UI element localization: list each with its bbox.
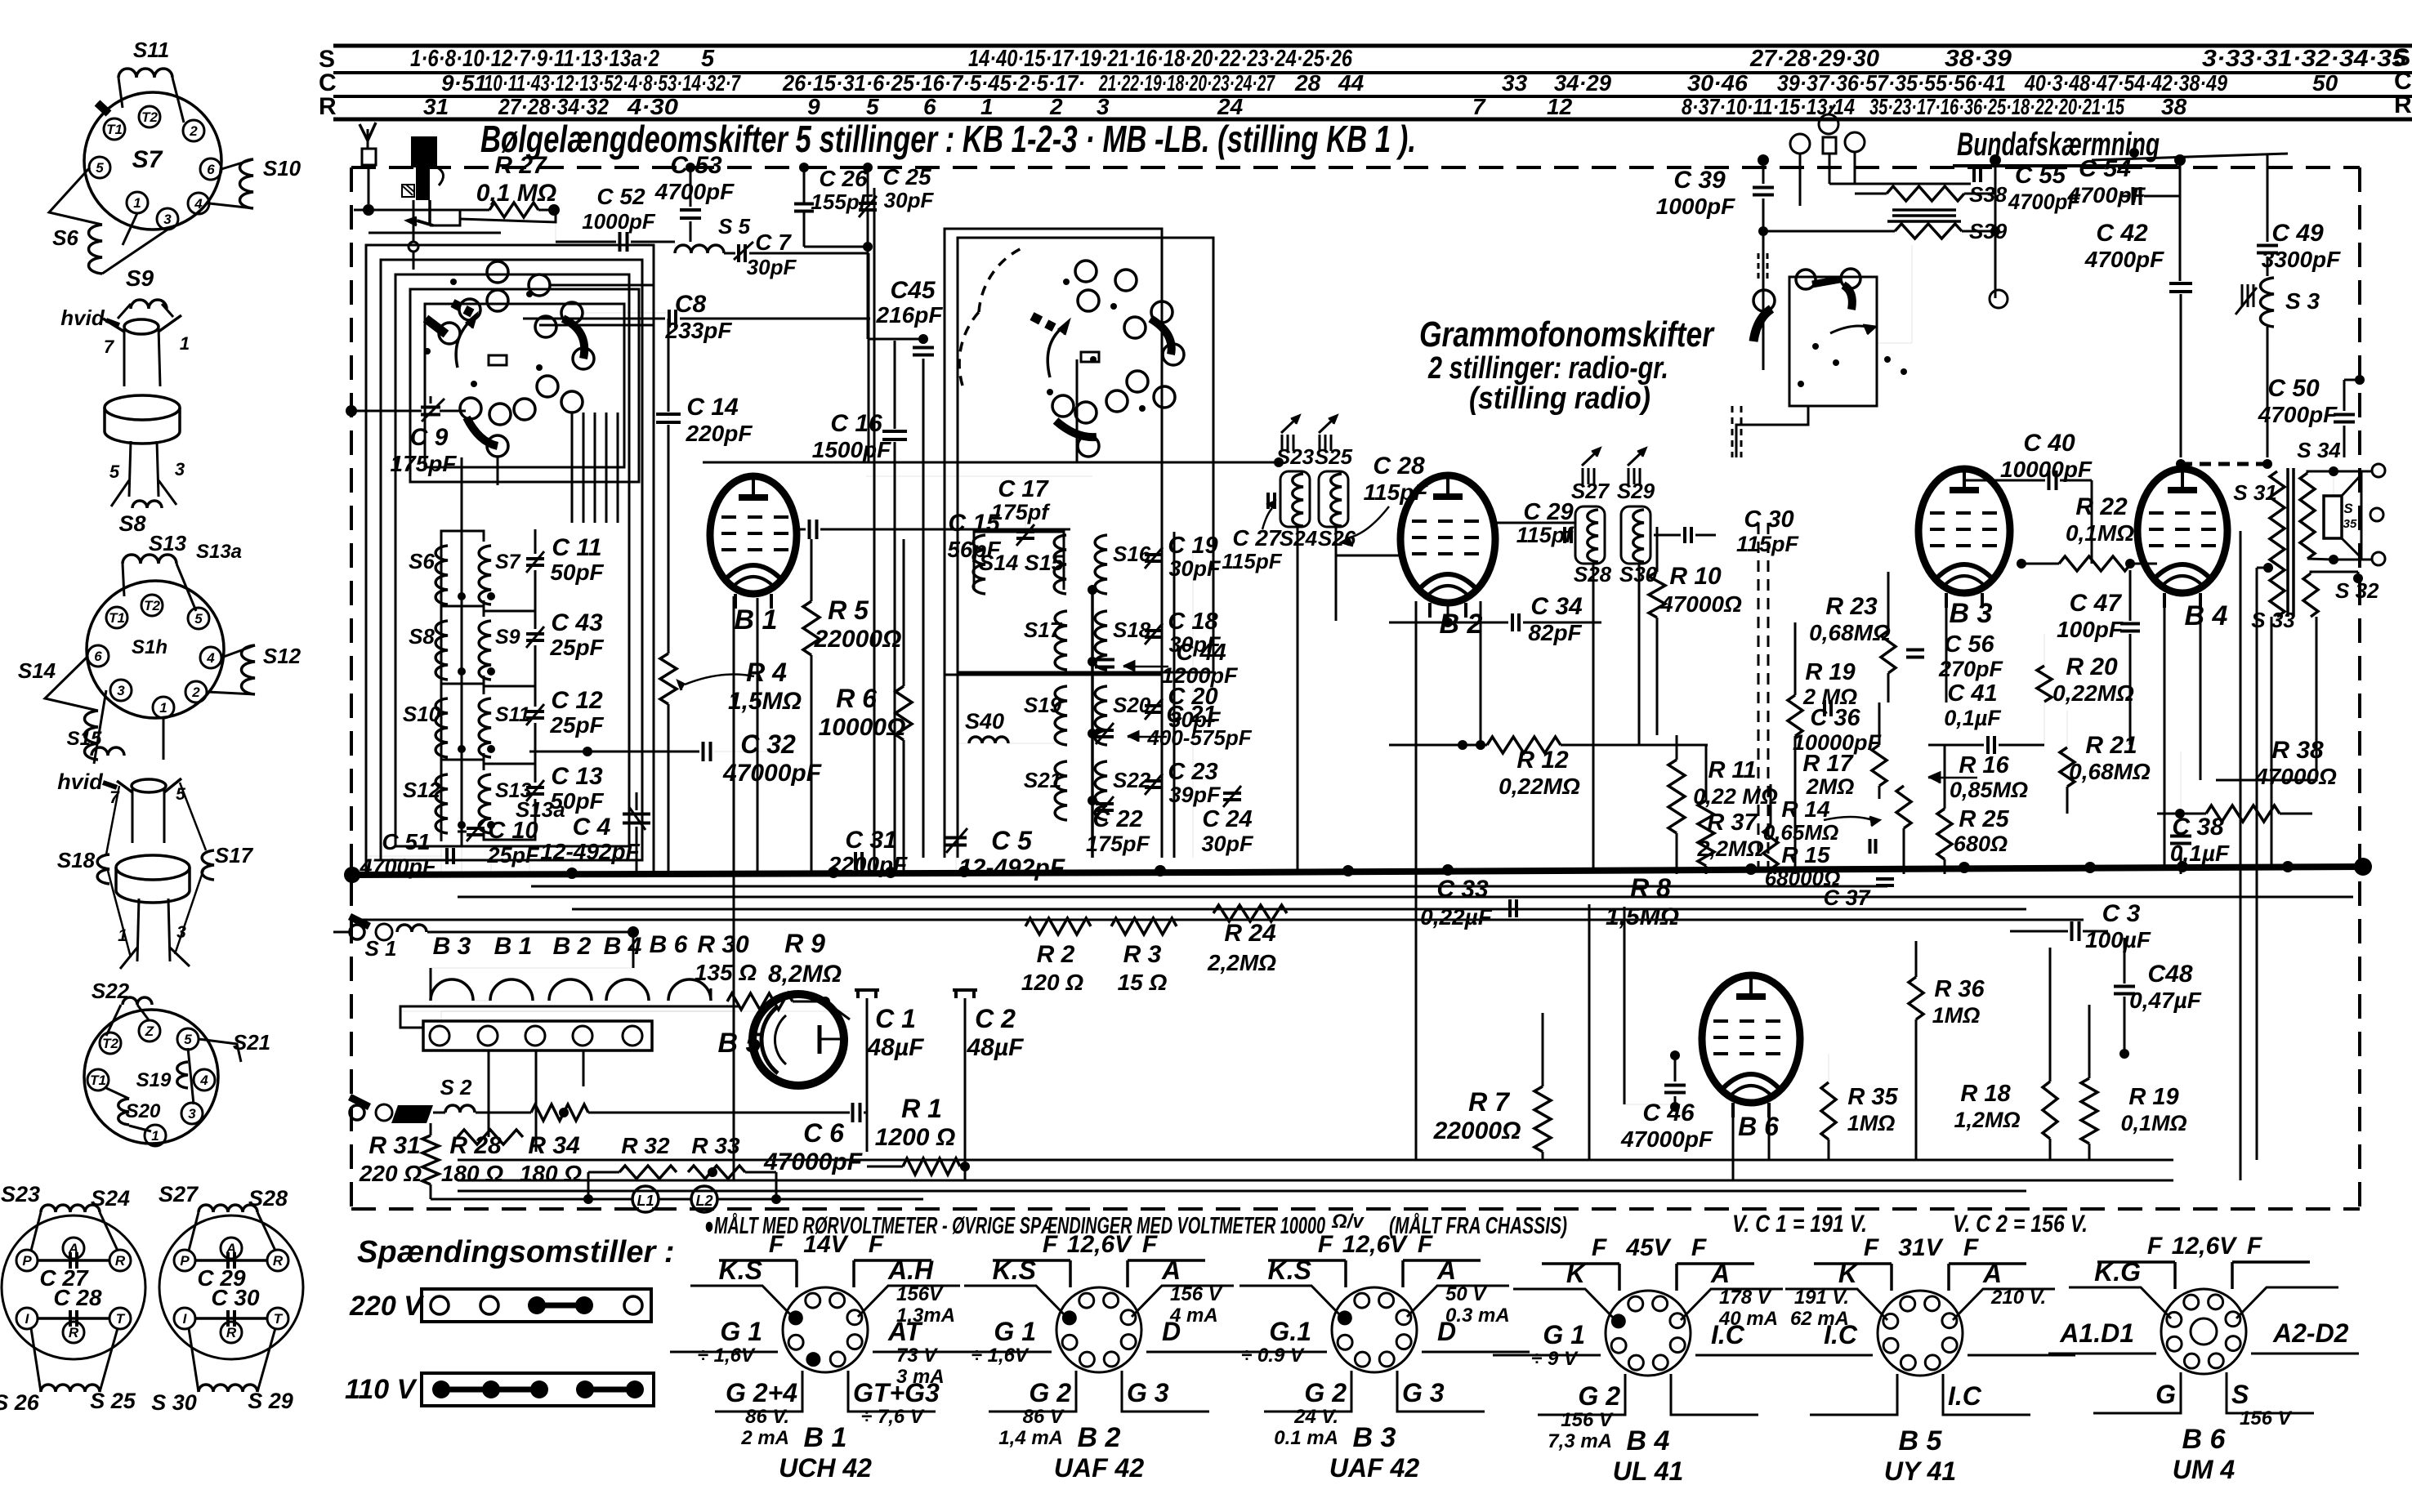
svg-text:1: 1 [180,333,190,354]
svg-text:G 1: G 1 [720,1317,762,1346]
svg-text:Bølgelængdeomskifter 5 stilli: Bølgelængdeomskifter 5 stillinger : KB 1… [480,118,1416,160]
svg-text:73 V: 73 V [896,1345,938,1367]
svg-text:3: 3 [188,1106,196,1122]
svg-text:B 5: B 5 [718,1028,762,1059]
svg-text:12-492pF: 12-492pF [540,839,640,864]
svg-text:Grammofonomskifter: Grammofonomskifter [1419,314,1715,355]
svg-text:1,5MΩ: 1,5MΩ [728,688,802,715]
svg-text:C 50: C 50 [2267,375,2320,402]
svg-text:C 17: C 17 [998,476,1049,502]
svg-text:28: 28 [1294,70,1321,96]
svg-text:C 54: C 54 [2079,156,2131,182]
svg-text:R 19: R 19 [2128,1084,2178,1110]
svg-text:A: A [1161,1256,1181,1285]
svg-text:R: R [226,1325,237,1340]
svg-text:S21: S21 [1024,768,1061,792]
svg-text:AT: AT [887,1317,923,1346]
svg-text:4700pF: 4700pF [2258,402,2338,427]
svg-text:21·22·19·18·20·23·24·27: 21·22·19·18·20·23·24·27 [1098,70,1275,96]
svg-text:34·29: 34·29 [1554,70,1611,96]
svg-text:38: 38 [2161,94,2187,119]
svg-text:R: R [2394,91,2412,118]
svg-text:K.G: K.G [2094,1257,2141,1287]
svg-text:GT+G3: GT+G3 [853,1378,940,1407]
svg-text:2,2MΩ: 2,2MΩ [1696,836,1763,861]
svg-text:C48: C48 [2147,961,2192,988]
svg-text:S12: S12 [403,778,441,802]
svg-text:C 43: C 43 [551,609,603,636]
svg-text:5: 5 [701,46,715,72]
svg-text:1MΩ: 1MΩ [1932,1003,1981,1028]
svg-text:C 14: C 14 [686,394,739,421]
svg-text:C 49: C 49 [2271,220,2324,247]
svg-text:A.H: A.H [887,1256,934,1285]
svg-text:Spændingsomstiller :: Spændingsomstiller : [357,1235,674,1269]
svg-text:38·39: 38·39 [1945,46,2012,72]
svg-text:115pF: 115pF [1222,549,1282,573]
svg-text:1000pF: 1000pF [582,209,656,234]
svg-text:10000pF: 10000pF [2000,457,2093,482]
svg-text:A1.D1: A1.D1 [2059,1318,2134,1348]
svg-text:0,47µF: 0,47µF [2129,988,2202,1013]
svg-text:7,3 mA: 7,3 mA [1548,1430,1612,1452]
svg-text:0,1MΩ: 0,1MΩ [2066,520,2134,546]
svg-text:45V: 45V [1625,1234,1672,1261]
svg-text:S8: S8 [409,624,435,649]
svg-text:B 6: B 6 [1738,1112,1779,1141]
svg-text:T2: T2 [144,598,160,613]
svg-text:T1: T1 [109,610,125,626]
svg-text:86 V: 86 V [1023,1406,1065,1428]
svg-text:R 3: R 3 [1123,941,1162,968]
svg-text:B 6: B 6 [650,931,688,958]
svg-text:39pF: 39pF [1168,783,1222,807]
svg-text:G 1: G 1 [1543,1320,1585,1349]
svg-text:9: 9 [807,94,820,119]
svg-text:S27: S27 [159,1182,199,1206]
svg-text:50: 50 [2312,70,2338,96]
svg-text:0,22 MΩ: 0,22 MΩ [1693,784,1778,809]
svg-text:44: 44 [1338,70,1365,96]
svg-text:S17: S17 [1024,618,1063,642]
svg-text:R 21: R 21 [2085,732,2137,759]
svg-text:R 6: R 6 [836,684,877,713]
svg-text:G 2: G 2 [1578,1381,1620,1411]
svg-text:S 34: S 34 [2297,438,2341,462]
svg-text:C 27: C 27 [1232,525,1282,551]
svg-text:L1: L1 [636,1193,654,1209]
svg-text:S14 S15: S14 S15 [979,551,1065,575]
svg-text:2MΩ: 2MΩ [1806,774,1855,799]
svg-text:1: 1 [159,700,167,716]
svg-text:R 5: R 5 [828,595,869,625]
svg-text:6: 6 [207,162,215,177]
svg-text:S 2: S 2 [440,1075,472,1099]
svg-text:30pF: 30pF [884,188,935,212]
svg-text:R: R [273,1253,284,1269]
svg-text:V. C 1 = 191 V.: V. C 1 = 191 V. [1732,1211,1867,1238]
svg-text:2: 2 [191,685,200,700]
svg-text:C 5: C 5 [991,826,1033,855]
svg-text:C 31: C 31 [845,827,896,854]
svg-text:R 35: R 35 [1847,1084,1898,1110]
svg-text:10·11·43·12·13·52·4·8·53·14·32: 10·11·43·12·13·52·4·8·53·14·32·7 [484,70,741,96]
svg-text:I.C: I.C [1824,1320,1858,1349]
svg-text:UL 41: UL 41 [1613,1456,1684,1486]
svg-text:B 3: B 3 [1950,598,1993,629]
svg-text:C 11: C 11 [552,534,601,561]
svg-text:D: D [1162,1317,1181,1346]
svg-text:3: 3 [117,683,125,698]
svg-text:R 19: R 19 [1805,659,1855,685]
svg-text:216pF: 216pF [876,302,944,328]
svg-text:1000pF: 1000pF [1656,194,1735,219]
svg-text:G 2+4: G 2+4 [726,1378,797,1407]
svg-text:C 52: C 52 [596,184,645,209]
svg-text:V. C 2 = 156 V.: V. C 2 = 156 V. [1953,1211,2088,1238]
svg-text:÷ 0.9 V: ÷ 0.9 V [1241,1345,1305,1367]
svg-text:82pF: 82pF [1528,620,1582,645]
svg-text:B 1: B 1 [804,1422,847,1453]
svg-text:1MΩ: 1MΩ [1847,1111,1896,1135]
svg-text:R 7: R 7 [1468,1087,1511,1117]
svg-text:4700pF: 4700pF [2084,247,2164,272]
svg-text:40·3·48·47·54·42·38·49: 40·3·48·47·54·42·38·49 [2024,70,2227,96]
svg-text:C 33: C 33 [1436,876,1489,903]
svg-text:C 13: C 13 [551,763,603,790]
svg-text:2 stillinger: radio-gr.: 2 stillinger: radio-gr. [1427,351,1668,386]
svg-text:I.C: I.C [1711,1320,1745,1349]
svg-text:0,85MΩ: 0,85MΩ [1950,778,2028,802]
svg-text:2,2MΩ: 2,2MΩ [1207,950,1276,975]
svg-text:S18: S18 [57,848,96,872]
svg-text:R 14: R 14 [1781,796,1830,822]
svg-text:C 24: C 24 [1202,806,1252,832]
svg-text:5: 5 [96,160,104,176]
svg-text:S19: S19 [1024,693,1062,717]
svg-text:50pF: 50pF [550,560,604,585]
svg-text:1200 Ω: 1200 Ω [875,1124,956,1151]
svg-text:B 4: B 4 [1627,1425,1670,1456]
svg-text:R 9: R 9 [784,929,825,958]
svg-text:C 36: C 36 [1810,705,1860,731]
svg-text:hvid: hvid [57,769,103,794]
svg-text:1·6·8·10·12·7·9·11·13·13a·2: 1·6·8·10·12·7·9·11·13·13a·2 [410,46,659,72]
svg-text:C 28: C 28 [1373,453,1425,479]
svg-text:C 2: C 2 [975,1004,1016,1033]
svg-text:UAF 42: UAF 42 [1329,1453,1419,1483]
svg-text:220 Ω: 220 Ω [359,1161,422,1186]
svg-text:175pF: 175pF [1086,832,1151,856]
svg-text:1: 1 [151,1128,159,1144]
svg-text:1,4 mA: 1,4 mA [998,1427,1063,1449]
svg-text:S 25: S 25 [90,1389,136,1413]
svg-text:220pF: 220pF [686,421,753,446]
svg-text:25pF: 25pF [549,712,604,738]
svg-text:3: 3 [1097,94,1110,119]
svg-text:C 34: C 34 [1530,593,1583,620]
svg-text:8,2MΩ: 8,2MΩ [768,961,842,988]
svg-text:47000pF: 47000pF [1620,1126,1713,1152]
svg-text:R: R [69,1325,79,1340]
svg-text:14·40·15·17·19·21·16·18·20·22·: 14·40·15·17·19·21·16·18·20·22·23·24·25·2… [968,46,1353,72]
svg-text:S29: S29 [1617,479,1655,503]
svg-text:S10: S10 [403,702,441,726]
svg-text:31: 31 [423,94,449,119]
svg-text:C 28: C 28 [53,1285,102,1310]
svg-text:A2-D2: A2-D2 [2272,1318,2349,1348]
svg-text:C 46: C 46 [1642,1099,1695,1126]
svg-text:1: 1 [133,195,141,211]
svg-text:C 25: C 25 [882,164,931,190]
svg-text:3300pF: 3300pF [2262,247,2341,272]
svg-text:2: 2 [189,123,198,139]
svg-text:C 26: C 26 [819,166,868,191]
svg-text:C 44: C 44 [1176,640,1226,666]
svg-text:1,2MΩ: 1,2MΩ [1954,1108,2020,1132]
svg-text:S 26: S 26 [0,1390,40,1415]
svg-text:C 51: C 51 [382,829,430,854]
svg-text:35: 35 [2343,517,2357,531]
svg-text:K: K [1838,1259,1860,1288]
svg-text:2: 2 [1049,94,1063,119]
svg-text:T2: T2 [102,1036,118,1051]
svg-text:G.1: G.1 [1269,1317,1311,1346]
svg-text:S6: S6 [409,549,435,573]
svg-text:S7: S7 [132,146,163,173]
svg-text:C 12: C 12 [551,687,603,714]
svg-text:G 3: G 3 [1402,1378,1445,1407]
svg-text:S 5: S 5 [718,214,751,239]
svg-text:R 8: R 8 [1630,873,1671,903]
svg-text:S: S [2343,501,2353,516]
svg-text:K.S: K.S [719,1256,763,1285]
svg-text:0,22MΩ: 0,22MΩ [1499,774,1580,799]
svg-text:100pF: 100pF [2057,617,2124,642]
svg-text:12-492pF: 12-492pF [958,854,1065,881]
svg-text:27·28·29·30: 27·28·29·30 [1749,46,1879,72]
svg-text:30pF: 30pF [1168,556,1222,581]
svg-text:S8: S8 [118,511,145,536]
svg-text:UAF 42: UAF 42 [1054,1453,1144,1483]
svg-text:P: P [180,1253,190,1269]
svg-text:C 29: C 29 [1523,499,1573,525]
svg-text:R 10: R 10 [1669,563,1722,590]
svg-text:25pF: 25pF [486,843,540,868]
svg-text:UM 4: UM 4 [2173,1455,2236,1484]
svg-text:S11: S11 [495,703,530,726]
svg-text:0,1MΩ: 0,1MΩ [2120,1111,2186,1135]
svg-text:R 25: R 25 [1959,806,2009,832]
svg-text:I.C: I.C [1948,1381,1982,1411]
svg-text:0,68MΩ: 0,68MΩ [1809,620,1891,645]
svg-text:15 Ω: 15 Ω [1118,970,1168,995]
svg-text:47000Ω: 47000Ω [1659,591,1742,617]
svg-text:30pF: 30pF [747,255,797,279]
svg-text:G 2: G 2 [1304,1378,1347,1407]
svg-text:5: 5 [866,94,879,119]
svg-text:R 32: R 32 [621,1133,670,1158]
svg-text:R 37: R 37 [1707,810,1758,836]
svg-text:R 23: R 23 [1825,593,1878,620]
svg-text:S19: S19 [136,1069,172,1091]
svg-text:A: A [1710,1259,1730,1288]
svg-text:S12: S12 [263,644,301,668]
svg-text:220 V: 220 V [349,1291,425,1322]
svg-text:31V: 31V [1898,1234,1944,1261]
svg-text:R 22: R 22 [2075,493,2128,520]
svg-text:0,1 MΩ: 0,1 MΩ [476,180,556,207]
svg-text:L2: L2 [695,1193,712,1209]
svg-text:5: 5 [109,462,120,482]
svg-text:÷ 1,6V: ÷ 1,6V [971,1345,1030,1367]
svg-text:S9: S9 [495,626,520,649]
svg-text:2 mA: 2 mA [740,1427,789,1449]
svg-text:C 16: C 16 [830,410,882,437]
svg-text:F: F [1592,1234,1607,1261]
svg-text:S 3: S 3 [2285,288,2320,314]
svg-text:12: 12 [1547,94,1573,119]
svg-text:G 3: G 3 [1127,1378,1169,1407]
svg-text:F: F [1963,1234,1979,1261]
svg-text:175pF: 175pF [391,451,458,476]
svg-text:7: 7 [104,337,115,357]
svg-text:C 18: C 18 [1168,609,1218,635]
svg-text:B 6: B 6 [2182,1424,2227,1455]
svg-text:C 53: C 53 [670,152,722,179]
svg-text:86 V.: 86 V. [745,1406,789,1428]
svg-text:120 Ω: 120 Ω [1021,970,1083,995]
svg-text:S13a: S13a [196,541,242,563]
svg-text:1500pF: 1500pF [812,437,891,462]
svg-text:T1: T1 [106,122,123,137]
svg-text:C 56: C 56 [1944,631,1994,658]
svg-text:F: F [2147,1233,2163,1260]
svg-text:F: F [1864,1234,1879,1261]
svg-text:4: 4 [194,196,203,212]
svg-text:R 4: R 4 [746,658,787,687]
svg-text:D: D [1437,1317,1456,1346]
svg-text:T: T [116,1311,126,1327]
svg-text:R 2: R 2 [1037,941,1075,968]
svg-text:T1: T1 [90,1073,106,1088]
svg-text:÷ 1,6V: ÷ 1,6V [698,1345,756,1367]
svg-text:3·33·31·32·34·35: 3·33·31·32·34·35 [2202,46,2407,72]
svg-text:÷ 9 V: ÷ 9 V [1531,1348,1579,1370]
svg-text:4700pF: 4700pF [359,854,437,879]
svg-text:C 7: C 7 [755,230,792,255]
svg-text:110 V: 110 V [345,1374,418,1405]
svg-text:24 V.: 24 V. [1293,1406,1338,1428]
svg-text:R 31: R 31 [368,1132,420,1159]
svg-text:47000pF: 47000pF [763,1148,863,1175]
svg-text:G: G [2155,1380,2176,1409]
svg-text:(stilling radio): (stilling radio) [1469,381,1650,416]
svg-text:30·46: 30·46 [1687,70,1748,96]
svg-text:C8: C8 [675,291,707,318]
svg-text:F: F [1691,1234,1707,1261]
svg-text:R: R [115,1253,126,1269]
svg-text:25pF: 25pF [549,635,604,660]
svg-text:B 4: B 4 [2185,600,2228,631]
svg-text:3: 3 [163,212,172,227]
svg-text:R 27: R 27 [494,152,547,179]
svg-text:B 2: B 2 [553,933,592,960]
svg-text:5: 5 [194,611,203,627]
svg-text:S13: S13 [149,531,187,555]
svg-text:K: K [1566,1259,1588,1288]
svg-text:47000pF: 47000pF [722,760,822,787]
svg-text:F: F [2247,1233,2262,1260]
svg-text:T: T [274,1311,284,1327]
svg-text:4: 4 [199,1073,208,1088]
svg-text:R 18: R 18 [1960,1081,2011,1107]
svg-text:UY 41: UY 41 [1884,1456,1956,1486]
svg-text:4700pF: 4700pF [654,179,735,204]
svg-text:35·23·17·16·36·25·18·22·20·21·: 35·23·17·16·36·25·18·22·20·21·15 [1869,94,2124,119]
svg-text:C45: C45 [890,277,936,304]
svg-text:S6: S6 [52,225,78,250]
svg-text:S27: S27 [1571,479,1610,503]
svg-text:48µF: 48µF [867,1034,925,1061]
svg-text:156 V: 156 V [1561,1409,1614,1431]
svg-text:9·51: 9·51 [441,70,487,96]
svg-text:K.S: K.S [1268,1256,1312,1285]
svg-text:27·28·34·32: 27·28·34·32 [498,94,609,119]
svg-text:4·30: 4·30 [627,94,679,119]
svg-text:22000Ω: 22000Ω [1433,1117,1521,1144]
svg-text:C 9: C 9 [410,424,449,451]
svg-text:Ω/v: Ω/v [1331,1211,1365,1233]
svg-text:C 6: C 6 [803,1118,844,1148]
svg-text:S28: S28 [248,1186,288,1211]
svg-text:A: A [1436,1256,1456,1285]
svg-text:C 41: C 41 [1947,680,1997,707]
svg-text:24: 24 [1217,94,1244,119]
svg-text:R 1: R 1 [901,1094,942,1123]
svg-text:UCH 42: UCH 42 [779,1453,872,1483]
svg-text:R 30: R 30 [697,931,749,958]
svg-text:2200pF: 2200pF [828,852,908,877]
svg-text:6: 6 [94,649,102,664]
svg-text:C 30: C 30 [211,1285,260,1310]
svg-text:0,1µF: 0,1µF [1944,706,2002,730]
svg-text:48µF: 48µF [967,1034,1025,1061]
svg-text:R 36: R 36 [1934,976,1985,1002]
svg-text:C 3: C 3 [2102,900,2141,927]
svg-text:175pf: 175pf [991,500,1052,524]
svg-text:180 Ω: 180 Ω [520,1161,582,1186]
svg-text:C 47: C 47 [2070,590,2123,617]
svg-text:R 16: R 16 [1959,752,2009,778]
svg-text:Z: Z [145,1024,154,1039]
svg-text:270pF: 270pF [1938,657,2004,681]
svg-text:S 29: S 29 [248,1389,293,1413]
svg-text:B 3: B 3 [1353,1422,1396,1453]
svg-text:0,22MΩ: 0,22MΩ [2052,680,2134,706]
svg-text:G 2: G 2 [1029,1378,1071,1407]
svg-text:K.S: K.S [993,1256,1037,1285]
svg-text:S40: S40 [965,709,1004,734]
svg-text:S23: S23 [1,1182,40,1206]
svg-text:B 2: B 2 [1078,1422,1121,1453]
svg-text:4: 4 [206,650,215,666]
svg-text:R 15: R 15 [1781,842,1830,868]
svg-text:0.1 mA: 0.1 mA [1274,1427,1338,1449]
svg-text:R 17: R 17 [1802,751,1854,777]
svg-text:R 11: R 11 [1708,757,1756,783]
svg-text:C 1: C 1 [875,1004,916,1033]
